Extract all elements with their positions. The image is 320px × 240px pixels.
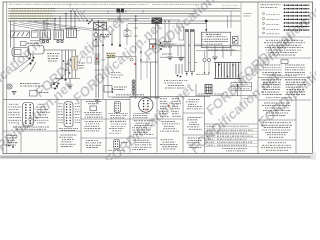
connector icon A1 [90, 106, 97, 111]
right column left rule [257, 2, 259, 154]
wire [205, 21, 207, 32]
caption text [13, 126, 49, 128]
wire [160, 56, 186, 58]
connector ticks [95, 45, 100, 47]
box E1 pin list left [160, 98, 168, 100]
harness bus wire [8, 18, 150, 20]
label text [114, 86, 127, 88]
box C3 text [133, 139, 149, 141]
wire [111, 30, 113, 44]
wire drop [169, 46, 171, 56]
terminal dots [160, 42, 162, 44]
heater feed wire [196, 50, 241, 52]
starter motor relay box U2 [201, 32, 230, 47]
ground [179, 57, 184, 59]
wire [32, 54, 34, 57]
connector B1 body [114, 102, 120, 113]
red mark E1 [168, 105, 170, 107]
R3 caption [267, 75, 297, 77]
wire [44, 49, 76, 51]
box A3 caption [86, 140, 98, 142]
box C2 text [134, 120, 154, 122]
wire [97, 21, 99, 98]
junction node [205, 20, 208, 23]
wire drop [65, 50, 67, 78]
ground [95, 99, 100, 101]
red pin mark [145, 109, 147, 111]
label text [162, 53, 172, 55]
wire fan diagonal [34, 22, 100, 30]
wire [112, 96, 160, 98]
title tick [69, 3, 71, 7]
bus hanging ticks [83, 10, 85, 13]
cluster inner dots [112, 88, 114, 90]
wire [196, 95, 257, 97]
connector B3 body [114, 140, 120, 150]
ignition resistor block [72, 57, 78, 71]
wire code label small [42, 23, 56, 25]
wire drop [230, 46, 232, 56]
wire [69, 78, 71, 84]
box C1 caption [134, 112, 150, 114]
terminal circle [57, 40, 59, 42]
wire code labels [11, 8, 56, 10]
terminal circle [42, 40, 44, 42]
wire fan diagonal [20, 23, 80, 31]
gap column text [244, 13, 252, 15]
bottom band top rule right [205, 123, 259, 125]
wire drop [65, 14, 67, 30]
wire [180, 46, 182, 57]
feeder stub box [21, 42, 27, 46]
accessory box [124, 31, 131, 37]
wire drop [75, 50, 77, 78]
fuse row block [11, 31, 30, 38]
fusible link bar tall [190, 30, 194, 72]
relay K4 [67, 29, 77, 38]
braid diagonal [72, 9, 80, 22]
box D2 text [187, 117, 201, 119]
wire fan diagonal [10, 24, 46, 31]
pin labels right [75, 103, 80, 105]
R1 dense terminal grid [284, 4, 286, 6]
wire drop [68, 50, 70, 78]
ground distribution scribble [7, 135, 17, 137]
bottom band mid rule [3, 130, 81, 132]
horn relay body [12, 48, 29, 57]
box divider [56, 100, 58, 153]
R1 item circles and labels [263, 13, 265, 15]
R4 caption [266, 96, 292, 98]
label text [27, 42, 39, 44]
wire with arrow [237, 84, 239, 96]
label text rows [47, 53, 60, 55]
red wire dot [96, 58, 98, 60]
tick [134, 19, 138, 21]
legend table rules [205, 127, 259, 129]
bottom band top rule mid [130, 95, 210, 97]
relay K2 [40, 30, 51, 40]
small relay box [32, 31, 39, 38]
gap column text low [244, 98, 251, 100]
cluster dots [63, 60, 65, 62]
R2 note text block [266, 39, 303, 41]
box divider [204, 96, 206, 152]
ground [213, 56, 218, 58]
splice blob [117, 9, 121, 13]
R4 dense rows left [261, 79, 281, 81]
box divider [80, 100, 82, 153]
wire [30, 40, 40, 42]
wire fan diagonal [28, 22, 92, 31]
box D1 text [188, 99, 199, 101]
ground [12, 91, 17, 93]
label text under box [208, 49, 236, 51]
connector boxes [150, 39, 157, 44]
box B1 caption [108, 113, 127, 115]
wire [195, 84, 197, 96]
caption text [59, 128, 78, 130]
lamp cluster strokes [175, 64, 177, 74]
cluster inner text [111, 72, 121, 74]
wire drop [54, 19, 56, 30]
row rule D [183, 112, 205, 114]
title strip text [9, 4, 149, 6]
wire diagonal [20, 61, 33, 73]
left margin rule [6, 2, 8, 154]
cluster dots [53, 83, 55, 85]
R1 header text [261, 4, 281, 6]
wire with arrow [95, 37, 97, 98]
yellow highlight on labels [9, 8, 51, 20]
right column divider [258, 36, 311, 38]
wire [164, 21, 166, 46]
label text [164, 80, 187, 82]
terminal circle [61, 40, 63, 42]
note labels box [231, 83, 252, 91]
box divider [156, 96, 158, 152]
fuse block grid icon [205, 85, 212, 94]
pin number ticks [202, 33, 203, 35]
wire [135, 16, 137, 99]
wire [92, 30, 94, 55]
fuse panel comb [214, 62, 241, 64]
harness bus wire [8, 15, 241, 17]
wire [95, 30, 97, 33]
R5 text block [264, 102, 290, 104]
small box [30, 91, 38, 97]
wire drop to comb [227, 16, 229, 28]
harness bus wire [8, 10, 241, 12]
red wire dot [134, 63, 136, 65]
round connector C1 [139, 98, 153, 112]
wire [168, 21, 170, 46]
label text [196, 74, 209, 76]
instrument voltage regulator box [104, 86, 112, 93]
box E2 text [161, 121, 175, 123]
wire drop [46, 19, 48, 30]
box A1 caption [84, 112, 101, 114]
wire drop to comb [230, 11, 232, 28]
harness bus wire [128, 23, 206, 25]
label text [164, 41, 173, 43]
box B2 text [111, 123, 127, 125]
box B2 title [110, 120, 126, 122]
box E1 pin list right [172, 98, 179, 100]
harness bus wire [8, 8, 241, 10]
wire drop [43, 21, 45, 30]
ground [168, 56, 173, 58]
row rule B [81, 137, 157, 139]
R7 text block [268, 142, 286, 144]
bottom band top rule left [3, 99, 130, 101]
wire [30, 54, 32, 57]
yellow highlighted label [107, 52, 117, 58]
label text [198, 93, 224, 95]
R3 icon [281, 60, 288, 64]
wire [55, 77, 80, 79]
fusible link bar tall [185, 30, 189, 72]
connector pins [25, 104, 27, 106]
junction dots [28, 57, 30, 59]
switch feed dots [86, 20, 88, 22]
connector ladder ticks [94, 55, 99, 57]
braid diagonal [80, 11, 88, 21]
switch chain wire [126, 24, 128, 45]
junction dot [65, 79, 67, 81]
label text [39, 92, 49, 94]
alternator blob [152, 18, 163, 25]
washer pump motor circle [7, 84, 12, 89]
wire drop [185, 46, 187, 60]
lamp circle [207, 58, 210, 61]
wire drop [177, 46, 179, 56]
wire [140, 46, 142, 80]
braid diagonal [76, 9, 84, 22]
junction dot [61, 77, 63, 79]
lamp circle [203, 58, 206, 61]
wire [150, 62, 152, 99]
connector C5 [233, 37, 239, 45]
box divider [129, 96, 131, 152]
wire drop [61, 50, 63, 78]
schematic right boundary [240, 2, 242, 110]
box A1 text [86, 101, 101, 103]
component label text [100, 34, 111, 36]
red wire mark [152, 46, 154, 48]
side component [179, 27, 184, 40]
ground [68, 84, 73, 86]
pin labels left [9, 103, 19, 105]
wire fan diagonal [14, 23, 62, 30]
small box left of pair [87, 57, 92, 63]
legend table header text [207, 125, 216, 127]
label dashes on bus [108, 19, 130, 21]
wire drop [59, 16, 61, 30]
instrument cluster feed wire [102, 21, 104, 99]
legend table footer text [222, 148, 248, 150]
harness bus wire [8, 13, 196, 15]
harness wire [160, 45, 241, 47]
wire [140, 61, 158, 63]
green wire mark [159, 44, 161, 46]
R4 dense rows right [285, 79, 306, 81]
wire drop [74, 11, 76, 30]
wire [204, 51, 206, 58]
wire [204, 62, 206, 72]
R6 text block [263, 122, 291, 124]
right column right rule lower [295, 96, 297, 154]
legend table rows [207, 129, 215, 131]
wire [119, 11, 121, 45]
harness bus wire [8, 20, 241, 22]
relay K3 [54, 30, 64, 40]
box divider [182, 96, 184, 152]
label text [116, 94, 144, 96]
box A2 caption [84, 121, 102, 123]
ignition coil symbol [133, 79, 135, 96]
wire drop [214, 46, 216, 56]
page bottom edge [0, 156, 311, 159]
gauge terminal circle [94, 33, 98, 37]
row rule A [81, 118, 183, 120]
R3 two-col rows [263, 64, 282, 66]
wire pair [155, 24, 157, 99]
pin labels left [58, 103, 63, 105]
box E3 text [161, 139, 174, 141]
wire drop [10, 21, 12, 48]
title strip text right [222, 4, 238, 6]
wire drop [206, 46, 208, 58]
pin labels right [37, 103, 45, 105]
starter relay body [28, 46, 44, 55]
ignition switch S1 [94, 23, 107, 31]
box divider [105, 100, 107, 153]
label text rows [79, 62, 85, 64]
bar bottom connector marks [186, 73, 188, 75]
cluster inner circle [130, 58, 133, 61]
connector pins [66, 104, 67, 105]
wire diagonal [30, 62, 36, 72]
label text [20, 83, 40, 85]
wire drop [222, 46, 224, 58]
wire diagonal [14, 59, 30, 72]
wire drop [71, 50, 73, 78]
box B3 caption [121, 142, 128, 144]
page corner shade [311, 152, 316, 160]
caption block [60, 134, 77, 136]
box D3 text [188, 137, 202, 139]
wire drop [13, 21, 15, 62]
instrument cluster outline [108, 57, 136, 98]
connector C-601 body [23, 103, 34, 127]
wire [208, 62, 210, 72]
wire diagonal [50, 78, 62, 86]
wire [146, 58, 148, 78]
terminal circle [46, 40, 48, 42]
connector C-602 body [64, 102, 73, 127]
bus junction dots [43, 20, 45, 22]
wire drop [70, 11, 72, 30]
page outer border [3, 2, 313, 154]
box divider short [20, 131, 22, 153]
